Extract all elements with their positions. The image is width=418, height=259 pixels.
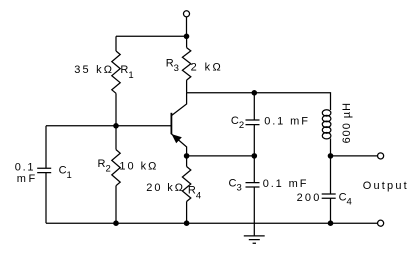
wire R3 bottom lead [186, 80, 188, 93]
wire C1 top lead [45, 126, 47, 168]
node C4 bottom dot [328, 220, 334, 226]
node C2/C3 junction dot [252, 153, 258, 159]
svg-text:R3: R3 [166, 57, 179, 74]
wire C2 top lead [253, 93, 255, 120]
svg-text:0.1 mF: 0.1 mF [264, 116, 310, 128]
svg-text:20 kΩ: 20 kΩ [146, 182, 185, 194]
wire base rail [46, 125, 171, 127]
wire R4 top lead [186, 156, 188, 167]
transistor Q1 emitter arrow (PNP, pointing to base) [172, 135, 181, 143]
wire C4 top lead [330, 156, 332, 194]
wire output top rail [331, 155, 378, 157]
transistor Q1 (PNP) base bar [170, 113, 172, 134]
svg-text:2 kΩ: 2 kΩ [191, 62, 224, 74]
output top terminal (open circle) [378, 153, 384, 159]
svg-text:35 kΩ: 35 kΩ [74, 64, 114, 76]
wire emitter rail [187, 155, 255, 157]
wire C3 bottom lead through bottom rail to ground [253, 187, 255, 236]
wire bottom rail [46, 222, 378, 224]
supply terminal (open circle) [183, 11, 189, 17]
wire R3 top lead [186, 36, 188, 47]
wire C1 bottom lead [45, 173, 47, 224]
wire C3 top lead [253, 156, 255, 183]
node emitter/R4 junction dot [184, 153, 190, 159]
wire R2 bottom lead [115, 186, 117, 224]
svg-text:C4: C4 [339, 191, 352, 207]
wire supply drop from terminal [186, 17, 188, 36]
output bottom terminal (open circle) [378, 220, 384, 226]
node base junction dot [113, 123, 119, 129]
wire collector rail to inductor [187, 93, 331, 110]
wire C4 bottom lead [330, 198, 332, 223]
svg-text:200: 200 [297, 192, 322, 204]
svg-text:10 kΩ: 10 kΩ [119, 160, 158, 172]
svg-text:0.1: 0.1 [15, 162, 35, 174]
node R4 bottom dot [184, 220, 190, 226]
svg-text:Output: Output [363, 180, 409, 192]
wire R4 bottom lead [186, 202, 188, 224]
svg-text:600 µH: 600 µH [341, 102, 353, 143]
svg-text:R1: R1 [120, 64, 133, 81]
svg-text:C2: C2 [231, 115, 244, 131]
inductor L1 coil [322, 110, 331, 139]
ground symbol [244, 236, 265, 243]
svg-text:R2: R2 [98, 158, 111, 175]
svg-text:0.1 mF: 0.1 mF [263, 178, 309, 190]
capacitor C4 [322, 194, 336, 198]
resistor R4 [182, 167, 190, 202]
capacitor C1 [37, 168, 51, 172]
node: top rail junction dot [184, 34, 190, 40]
node inductor/C4/output junction dot [328, 153, 334, 159]
wire C2 bottom lead [253, 125, 255, 156]
capacitor C3 [246, 183, 260, 187]
wire R2 top lead [115, 126, 117, 150]
svg-text:C3: C3 [229, 178, 242, 194]
wire R1 bottom lead [115, 93, 117, 126]
svg-text:C1: C1 [59, 164, 72, 181]
wire inductor bottom lead [330, 139, 332, 156]
resistor R2 [112, 150, 120, 186]
svg-text:mF: mF [17, 173, 38, 185]
node R2 bottom dot [113, 220, 119, 226]
transistor Q1 emitter lead [171, 134, 186, 156]
resistor R1 [112, 51, 120, 93]
capacitor C2 [246, 120, 260, 125]
resistor R3 [182, 48, 190, 81]
transistor Q1 collector lead [171, 93, 186, 116]
node collector rail / C2 dot [252, 90, 258, 96]
wire top supply rail [116, 35, 187, 37]
wire R1 top lead [115, 36, 117, 51]
